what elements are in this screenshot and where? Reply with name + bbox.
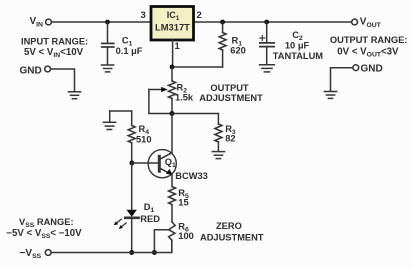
svg-text:10 μF: 10 μF xyxy=(285,40,310,50)
svg-text:LM317T: LM317T xyxy=(155,22,190,33)
svg-text:D1: D1 xyxy=(144,202,155,214)
resistor R3 xyxy=(215,114,222,152)
op-amp U1 IC1 LM317T body xyxy=(151,7,194,41)
svg-text:GND: GND xyxy=(20,66,42,77)
wire Q1 collector to R2-bottom node xyxy=(171,114,173,153)
node LED bottom junction xyxy=(129,250,134,255)
wire bottom rail xyxy=(51,240,172,252)
svg-text:Q1: Q1 xyxy=(165,157,176,169)
wire R6 tap bracket xyxy=(154,230,168,253)
ground right xyxy=(324,92,336,99)
wire node to R3 xyxy=(172,113,218,115)
LED D1 xyxy=(125,163,138,253)
wire wiper to R2 bottom xyxy=(149,90,172,114)
resistor R5 xyxy=(169,187,176,222)
resistor R2 potentiometer element xyxy=(168,67,175,114)
svg-text:0V < VOUT<3V: 0V < VOUT<3V xyxy=(337,47,399,59)
terminal GND left xyxy=(45,66,51,72)
terminal V_IN xyxy=(46,19,52,25)
R2 wiper arrow xyxy=(149,87,168,92)
node C1-top junction xyxy=(105,20,110,25)
svg-text:TANTALUM: TANTALUM xyxy=(273,51,324,61)
svg-text:2: 2 xyxy=(197,10,202,21)
svg-text:ADJUSTMENT: ADJUSTMENT xyxy=(199,93,263,103)
svg-text:1: 1 xyxy=(175,41,181,52)
svg-text:ADJUSTMENT: ADJUSTMENT xyxy=(200,233,264,243)
capacitor C2 xyxy=(260,22,274,64)
node R1-top junction xyxy=(220,20,225,25)
svg-text:OUTPUT RANGE:: OUTPUT RANGE: xyxy=(330,35,407,45)
ground below C1 xyxy=(102,65,114,72)
wire IC pin 1 down xyxy=(172,40,174,67)
node tap junction on bottom rail xyxy=(152,250,157,255)
svg-text:100: 100 xyxy=(178,231,194,241)
wire GND-left to ground xyxy=(51,69,75,91)
node C2-top junction xyxy=(264,20,269,25)
terminal V_OUT xyxy=(352,19,358,25)
svg-text:620: 620 xyxy=(230,45,246,55)
wire pin1 node to R1 bottom xyxy=(172,66,223,68)
svg-text:0.1 μF: 0.1 μF xyxy=(116,46,143,56)
capacitor C1 xyxy=(102,22,114,65)
terminal -VSS xyxy=(45,250,51,256)
terminal GND right xyxy=(353,65,359,71)
LED light arrows xyxy=(114,219,126,229)
svg-text:3: 3 xyxy=(141,10,146,21)
wire GND-right to ground xyxy=(331,68,353,91)
wire top rail left (V_IN to IC pin 3) xyxy=(52,21,150,23)
svg-text:BCW33: BCW33 xyxy=(175,171,208,181)
svg-text:OUTPUT: OUTPUT xyxy=(210,83,249,93)
svg-text:−5V < VSS< −10V: −5V < VSS< −10V xyxy=(6,228,82,240)
node base junction xyxy=(129,161,134,166)
svg-text:510: 510 xyxy=(136,135,152,145)
ground below R3 xyxy=(212,152,224,159)
ground below C2 xyxy=(260,65,275,72)
svg-text:INPUT RANGE:: INPUT RANGE: xyxy=(21,37,88,47)
wire Q1 emitter down xyxy=(171,175,173,187)
node pin1 junction xyxy=(170,65,175,70)
svg-text:VIN: VIN xyxy=(30,16,44,28)
svg-text:GND: GND xyxy=(361,64,383,75)
resistor R1 xyxy=(219,22,226,67)
wire base junction to Q1 base xyxy=(132,162,159,164)
svg-text:5V < VIN<10V: 5V < VIN<10V xyxy=(24,47,84,59)
svg-text:15: 15 xyxy=(178,198,188,208)
ground left xyxy=(68,92,80,99)
svg-text:ZERO: ZERO xyxy=(216,221,242,231)
transistor Q1 xyxy=(148,150,176,178)
svg-text:VOUT: VOUT xyxy=(360,17,382,29)
wire top rail right (IC pin 2 to V_OUT) xyxy=(194,21,352,23)
svg-text:82: 82 xyxy=(225,134,235,144)
resistor R6 xyxy=(169,222,176,253)
resistor R4 xyxy=(128,111,135,163)
plus sign C2 xyxy=(260,36,265,41)
wire ground to R4 top xyxy=(110,110,132,112)
svg-text:1.5k: 1.5k xyxy=(175,92,194,102)
ground above R4 (inverted) xyxy=(103,111,115,130)
svg-text:RED: RED xyxy=(140,214,160,224)
svg-text:−VSS: −VSS xyxy=(20,248,42,260)
node R2 bottom junction xyxy=(170,111,175,116)
